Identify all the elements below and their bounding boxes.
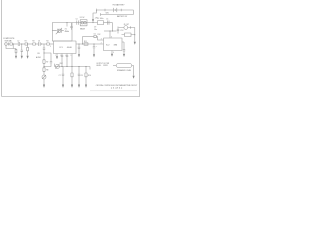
svg-text:C4: C4 (76, 18, 78, 20)
svg-text:R2: R2 (25, 41, 27, 43)
resistor R5 shunt (15, 48, 17, 51)
svg-text:SPEAKER 8 OHM: SPEAKER 8 OHM (117, 69, 131, 72)
junction dots chain (44, 53, 45, 68)
wire bus left stub (54, 64, 56, 67)
svg-text:IC2: IC2 (106, 44, 110, 46)
battery BT1 cell plates (114, 8, 117, 12)
IC1 pin gnd stub (56, 54, 58, 57)
wire box pin to bus (66, 23, 68, 27)
svg-text:CRYSTAL CONTROLLED FM TRANSMIT: CRYSTAL CONTROLLED FM TRANSMITTER CIRCUI… (96, 84, 138, 87)
svg-text:4046: 4046 (67, 47, 73, 49)
svg-text:K1 5V: K1 5V (80, 17, 85, 19)
resistor R12 box (125, 33, 132, 37)
svg-text:C5: C5 (106, 19, 108, 21)
svg-text:5: 5 (71, 55, 72, 57)
wire J2 down (134, 28, 136, 42)
wire bus right (104, 22, 113, 24)
wire input line (12, 43, 18, 45)
capacitor C17 output (123, 50, 125, 54)
svg-text:AUDIO: AUDIO (36, 56, 42, 59)
ground arrow (input 3) (27, 56, 29, 59)
wire chain (43, 63, 45, 68)
ground arrow (R10) (85, 85, 87, 88)
svg-text:R10: R10 (88, 75, 91, 77)
capacitor C15 under IC1 (61, 54, 63, 67)
wire power bus (72, 22, 98, 24)
title underline (90, 90, 137, 92)
svg-text:+: + (96, 46, 97, 48)
capacitor C16 under IC1 (66, 54, 68, 67)
resistor R1 on input line (10, 43, 13, 45)
switch SW1 tick (105, 9, 121, 12)
ground arrow (C11) (93, 54, 95, 57)
wire connector sleeve down (6, 44, 16, 49)
wire (40, 43, 46, 45)
svg-text:3: 3 (50, 46, 51, 48)
wire (28, 43, 33, 45)
resistor R11 on line (84, 43, 88, 45)
wire (35, 43, 38, 45)
wire IC1 out to IC2 (76, 43, 104, 45)
svg-text:OUT 8R: OUT 8R (103, 63, 110, 65)
svg-text:C1: C1 (9, 41, 11, 43)
svg-text:C12: C12 (120, 30, 123, 32)
ground arrow (speaker) (133, 76, 135, 79)
connector J1 (5, 43, 8, 46)
ground arrow (input 1) (15, 56, 17, 59)
wire to J2 (119, 26, 135, 29)
capacitor C8 (78, 67, 80, 85)
wire Vcc to IC2 (104, 30, 117, 32)
resistor R9 (71, 67, 73, 74)
crystal X1 (52, 29, 57, 33)
wire IC2 output (122, 42, 124, 50)
ground arrow (input 2) (21, 56, 23, 59)
svg-text:R12: R12 (98, 34, 101, 36)
wire lower bus (55, 66, 91, 68)
capacitor C11 electrolytic (93, 44, 95, 54)
svg-text:D1: D1 (94, 34, 96, 36)
capacitor C12 (117, 27, 119, 34)
svg-text:SPKR: SPKR (103, 65, 108, 67)
svg-text:4MHz: 4MHz (65, 31, 70, 33)
connector J2 circle (124, 26, 128, 30)
trimmer RV2 (55, 64, 59, 68)
capacitor C18 shunt (78, 44, 80, 54)
ground arrow (C18) (78, 54, 80, 57)
wire to ground (43, 79, 45, 85)
trimmer arrow on X1 (56, 28, 62, 34)
capacitor C4 on bus (77, 21, 79, 25)
svg-text:RV2: RV2 (60, 63, 63, 65)
border frame right (139, 0, 141, 97)
capacitor C14 parallel (50, 62, 52, 63)
op-amp IC1 box (54, 41, 77, 54)
svg-text:386: 386 (114, 44, 118, 46)
amplifier IC2 box (104, 38, 123, 51)
capacitor C5 on bus (108, 21, 109, 25)
svg-text:OUTPUT: OUTPUT (96, 63, 103, 65)
svg-text:4: 4 (113, 52, 114, 54)
resistor R6 shunt (27, 45, 29, 47)
capacitor C2 (39, 42, 40, 46)
svg-text:IC1: IC1 (59, 47, 63, 49)
svg-text:C8: C8 (81, 75, 83, 77)
speaker LS1 loop (116, 64, 132, 68)
wire IC2 gnd pin (111, 51, 113, 54)
oscillator module box M1 (52, 23, 72, 41)
svg-text:FB: FB (38, 53, 40, 55)
ground arrow (IC2) (111, 54, 113, 57)
battery terminal bars (97, 9, 101, 16)
relay K1 box (80, 20, 87, 26)
svg-text:C7: C7 (59, 75, 61, 77)
wire chain lower (43, 71, 45, 75)
resistor R7 chain (43, 60, 45, 64)
wire bus corner down (112, 23, 114, 31)
svg-text:10u: 10u (94, 29, 97, 31)
ground arrow (R9) (71, 85, 73, 88)
svg-text:C2: C2 (17, 41, 19, 43)
resistor R8 chain (43, 68, 45, 72)
svg-text:LEVEL: LEVEL (96, 65, 101, 67)
junction dots IC1 out wire (67, 22, 114, 44)
wire IC2 pin6 up (109, 31, 111, 38)
capacitor C3 shunt (21, 44, 23, 56)
resistor R3 (33, 43, 36, 45)
wire lower bus right stub (89, 67, 91, 70)
svg-text:J2 OUT: J2 OUT (124, 24, 130, 26)
resistor R10 (85, 67, 87, 74)
ground arrow (C17) (123, 54, 125, 57)
svg-text:R3: R3 (32, 41, 34, 43)
junction dot J2 (134, 34, 135, 35)
svg-text:R7: R7 (46, 61, 48, 63)
capacitor C6 in module (70, 23, 72, 30)
trimpot RV1 (42, 75, 46, 79)
svg-text:2: 2 (101, 43, 102, 45)
wire R12 (122, 34, 135, 36)
junction dots input line (13, 44, 42, 45)
border frame left (1, 0, 3, 97)
ground arrow (IC1 pin) (56, 56, 58, 59)
svg-text:C3: C3 (38, 41, 40, 43)
svg-text:R4: R4 (46, 41, 48, 43)
capacitor C7 (62, 67, 64, 85)
relay K1 coils (81, 21, 84, 24)
border frame bottom (2, 96, 140, 98)
svg-text:L1 100u: L1 100u (97, 18, 103, 20)
speaker stub right to ground (132, 66, 134, 76)
ground arrow (C7) (62, 85, 64, 88)
svg-text:9V BATTERY: 9V BATTERY (113, 3, 126, 6)
svg-text:( 1 of 1 ): ( 1 of 1 ) (111, 88, 123, 90)
capacitor C13 chain top (43, 44, 45, 60)
ground arrow (C8) (78, 85, 80, 88)
power arrow +9V (92, 19, 94, 22)
svg-text:R11: R11 (84, 41, 87, 43)
capacitor C1 (18, 42, 19, 46)
ground arrow (J2) (134, 42, 136, 45)
wire IC1 pin to lower bus (71, 54, 73, 67)
wire into IC1 (49, 43, 53, 45)
ground arrow (chain) (43, 85, 45, 88)
svg-text:COMPOSITE: COMPOSITE (3, 38, 15, 40)
svg-text:BATTERY 9V: BATTERY 9V (117, 15, 128, 18)
wire feedback top (83, 36, 94, 38)
svg-text:R8: R8 (46, 69, 48, 71)
speaker stub left (113, 65, 116, 67)
svg-text:NA5W: NA5W (80, 27, 85, 30)
junction dots lower bus (62, 66, 87, 67)
parallel branch wire (44, 53, 51, 67)
wire battery to +9V node (93, 10, 97, 19)
battery BT1 wires (top loop) (97, 10, 134, 15)
resistor R2 (25, 43, 28, 45)
resistor R4 (47, 43, 50, 45)
wire feedback up (82, 37, 84, 45)
wire (20, 43, 25, 45)
diode D1 (94, 35, 97, 37)
inductor L1 box (98, 21, 104, 25)
svg-text:SW1: SW1 (106, 13, 109, 15)
